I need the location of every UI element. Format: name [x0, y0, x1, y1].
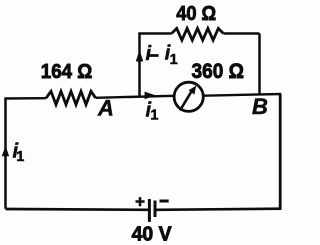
- svg-text:40 Ω: 40 Ω: [176, 3, 216, 25]
- wire: middle segment galvanometer to right: [204, 94, 282, 96]
- battery plus sign: [136, 197, 145, 206]
- svg-text:1: 1: [170, 52, 178, 68]
- battery minus sign: [160, 200, 169, 203]
- wire: bottom right segment from battery: [157, 209, 282, 210]
- wire: top left segment: [138, 32, 171, 35]
- svg-text:B: B: [252, 94, 268, 119]
- arrow i1 on middle wire: [145, 92, 156, 100]
- battery long plate: [148, 199, 151, 222]
- svg-text:i: i: [146, 43, 152, 65]
- svg-text:164 Ω: 164 Ω: [41, 61, 93, 83]
- galvanometer U1 body: [174, 82, 203, 111]
- galvanometer needle arrowhead: [189, 86, 197, 95]
- wire: middle left segment: [4, 97, 46, 100]
- galvanometer needle: [180, 90, 192, 110]
- wire: top right segment: [224, 32, 260, 35]
- svg-text:360 Ω: 360 Ω: [192, 59, 245, 83]
- wire: branch left vertical: [138, 34, 141, 97]
- battery short plate: [154, 201, 157, 218]
- wire: middle segment A to galvanometer: [96, 96, 175, 98]
- wire: outer loop right side: [279, 94, 282, 210]
- resistor R2 40 ohm zigzag: [172, 28, 224, 40]
- wire: branch right vertical: [258, 34, 261, 96]
- svg-text:1: 1: [16, 149, 24, 165]
- svg-text:1: 1: [150, 107, 158, 123]
- arrow i1 up on left outer wire: [2, 146, 9, 157]
- wire: bottom left segment to battery: [6, 208, 149, 212]
- svg-text:A: A: [97, 96, 114, 121]
- wire: outer loop left side: [4, 99, 7, 209]
- svg-text:40 V: 40 V: [132, 224, 173, 245]
- resistor R1 164 ohm zigzag: [46, 91, 96, 104]
- arrow i-i1 up on branch: [136, 50, 143, 62]
